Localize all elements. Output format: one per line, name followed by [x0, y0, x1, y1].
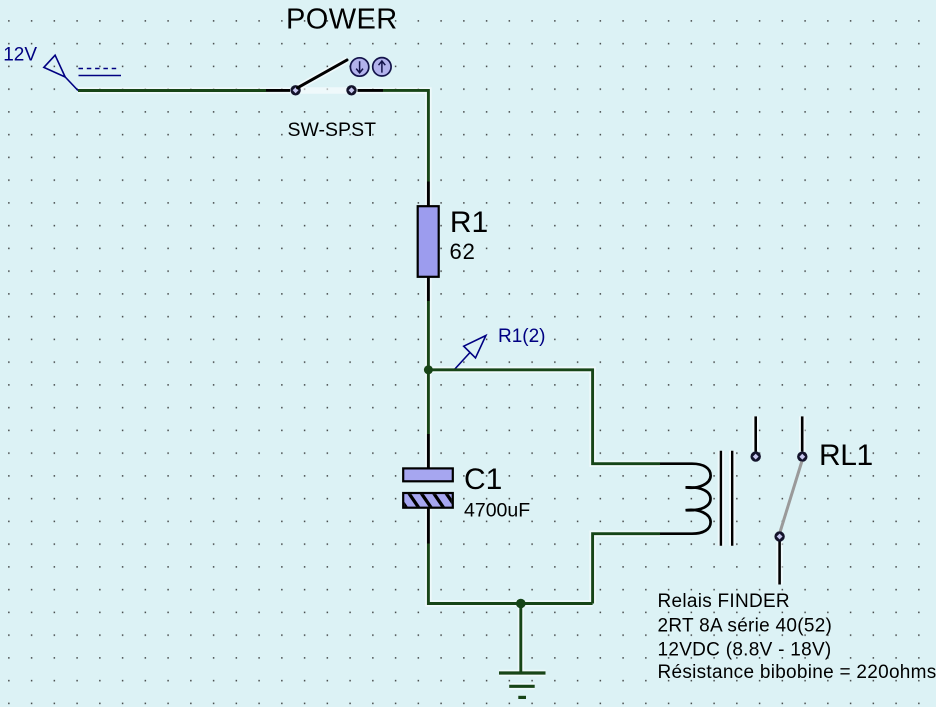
svg-text:RL1: RL1	[819, 439, 873, 472]
svg-text:62: 62	[450, 239, 476, 264]
wire: resistor to capacitor	[427, 301, 430, 434]
svg-text:12VDC (8.8V - 18V): 12VDC (8.8V - 18V)	[658, 640, 832, 661]
capacitor C1 top plate	[403, 468, 453, 481]
relay contact bottom pin	[778, 542, 781, 585]
svg-text:Résistance bibobine = 220ohms: Résistance bibobine = 220ohms	[658, 662, 936, 683]
relay core line 2	[731, 451, 733, 546]
svg-text:2RT 8A série 40(52): 2RT 8A série 40(52)	[658, 616, 833, 637]
switch actuator button down	[350, 58, 368, 76]
switch right terminal	[346, 85, 356, 95]
wire: relay coil bottom to ground rail	[593, 534, 660, 604]
wire: capacitor bottom to ground rail	[428, 544, 592, 604]
svg-text:SW-SPST: SW-SPST	[288, 119, 377, 141]
relay contact terminal NO	[751, 451, 761, 461]
junction node	[424, 365, 433, 374]
wire: switch to resistor	[383, 90, 428, 181]
switch actuator button up	[373, 58, 391, 76]
capacitor C1 bottom plate (hatched)	[396, 492, 457, 508]
ground stem	[519, 604, 522, 674]
capacitor C1 top pin	[427, 434, 430, 468]
svg-text:R1: R1	[450, 206, 488, 239]
power terminal dashed bar	[79, 68, 121, 70]
junction node ground	[516, 599, 526, 609]
ground bar 3	[518, 696, 526, 699]
switch SW1 left pin	[266, 89, 290, 92]
wire: junction to relay coil top	[428, 370, 660, 464]
resistor R1 top pin	[427, 182, 430, 207]
resistor R1 body	[418, 206, 439, 277]
svg-text:Relais FINDER: Relais FINDER	[658, 591, 790, 612]
relay movable contact lever	[780, 462, 802, 532]
wire: 12V terminal to switch	[78, 89, 266, 92]
ground bar 1	[499, 671, 546, 674]
switch left terminal	[290, 85, 300, 95]
relay contact pin NO	[754, 416, 757, 451]
switch SW1 right pin	[358, 89, 384, 92]
svg-text:POWER: POWER	[286, 3, 398, 35]
relay contact terminal common	[797, 452, 807, 462]
net label arrow R1(2)	[454, 336, 486, 371]
svg-text:C1: C1	[464, 463, 502, 496]
relay RL1 coil	[660, 464, 711, 534]
relay core line 1	[720, 451, 722, 546]
svg-text:12V: 12V	[3, 45, 37, 66]
svg-text:4700uF: 4700uF	[464, 499, 530, 521]
capacitor C1 bottom pin	[427, 508, 430, 544]
power terminal 12V arrow symbol	[44, 55, 78, 90]
switch lever	[298, 60, 348, 88]
resistor R1 bottom pin	[427, 277, 430, 301]
power terminal solid bar	[79, 75, 122, 77]
svg-text:R1(2): R1(2)	[498, 326, 546, 347]
annotation text block	[658, 591, 936, 683]
relay contact terminal bottom	[774, 531, 784, 541]
relay contact pin common	[801, 416, 804, 451]
ground bar 2	[509, 685, 535, 688]
